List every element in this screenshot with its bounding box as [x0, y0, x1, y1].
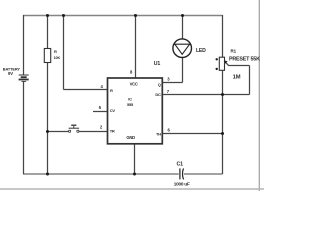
- svg-text:R: R: [110, 88, 113, 93]
- svg-text:GND: GND: [126, 135, 135, 140]
- svg-text:U1: U1: [154, 61, 161, 67]
- svg-text:DC: DC: [155, 92, 161, 97]
- svg-text:PRESET 55K: PRESET 55K: [229, 57, 260, 63]
- svg-text:Q: Q: [158, 82, 161, 87]
- svg-text:TH: TH: [156, 132, 161, 137]
- svg-text:10K: 10K: [54, 56, 61, 60]
- svg-text:1M: 1M: [233, 74, 241, 80]
- svg-text:LED: LED: [196, 48, 206, 54]
- svg-text:9V: 9V: [8, 71, 13, 76]
- svg-text:VCC: VCC: [130, 82, 138, 87]
- svg-text:555: 555: [127, 102, 134, 107]
- svg-text:R: R: [54, 49, 57, 54]
- svg-text:C1: C1: [177, 161, 184, 167]
- svg-text:TR: TR: [110, 129, 115, 134]
- svg-text:R1: R1: [231, 48, 237, 53]
- svg-text:IC: IC: [128, 97, 132, 102]
- svg-text:1000 uF: 1000 uF: [174, 182, 190, 187]
- svg-text:CV: CV: [110, 108, 116, 113]
